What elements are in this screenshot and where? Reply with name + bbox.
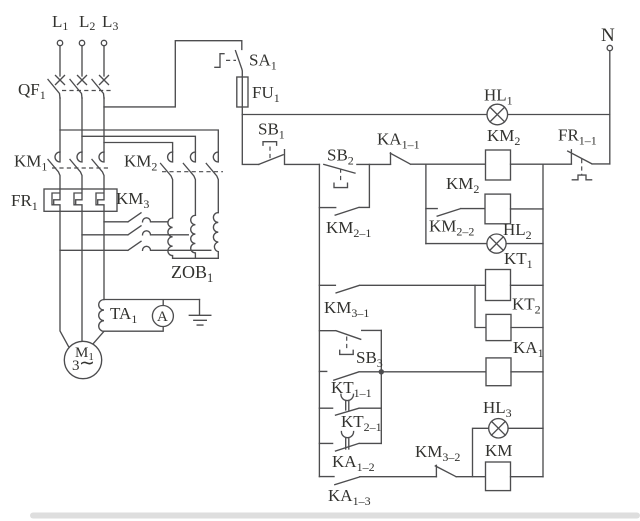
- svg-text:∼: ∼: [79, 353, 95, 374]
- svg-text:A: A: [157, 309, 168, 325]
- svg-text:ZOB1: ZOB1: [171, 262, 213, 285]
- svg-text:N: N: [601, 25, 615, 46]
- svg-text:KM: KM: [485, 441, 512, 460]
